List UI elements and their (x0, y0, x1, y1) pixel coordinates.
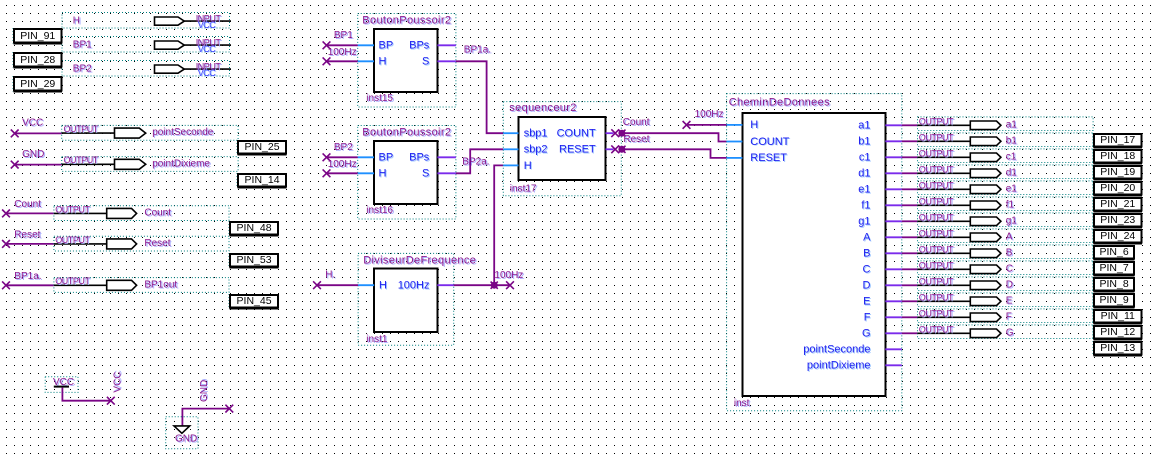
pin stub H of inst (727, 124, 743, 126)
svg-text:VCC: VCC (113, 371, 124, 392)
svg-text:OUTPUT: OUTPUT (919, 213, 954, 223)
svg-text:sequenceur2: sequenceur2 (509, 102, 576, 114)
svg-text:H: H (750, 119, 758, 131)
junction on net Reset (618, 146, 625, 153)
wire net f1 from inst to output port (902, 204, 918, 206)
junction on net Count (618, 130, 625, 137)
pin stub g1 of inst (885, 220, 902, 222)
svg-text:a1: a1 (858, 120, 870, 132)
wire net Reset from inst17.RESET to CheminDeDonnees.RESET (619, 149, 727, 158)
svg-text:OUTPUT: OUTPUT (919, 197, 954, 207)
svg-text:GND: GND (199, 380, 210, 402)
svg-text:OUTPUT: OUTPUT (919, 117, 954, 127)
wire inst16.S to sequenceur2.sbp2 (456, 149, 503, 173)
pin stub F of inst (885, 316, 902, 318)
svg-text:BP1: BP1 (334, 30, 353, 41)
output port component G (918, 325, 1094, 339)
output port component B (918, 245, 1094, 259)
wire endpoint X on net H at inst1.H (313, 281, 321, 289)
svg-text:RESET: RESET (559, 144, 596, 156)
svg-text:C: C (1006, 264, 1013, 275)
svg-text:B: B (1006, 248, 1013, 259)
svg-text:BP1a.: BP1a. (464, 45, 491, 56)
svg-text:PIN_6: PIN_6 (1100, 246, 1129, 258)
pin stub BPs of inst15 (437, 44, 456, 46)
svg-text:B: B (863, 248, 870, 260)
svg-text:BoutonPoussoir2: BoutonPoussoir2 (362, 126, 451, 138)
wire from GND to output pointDixieme (15, 164, 62, 166)
pin stub D of inst (885, 284, 902, 286)
svg-text:Count: Count (623, 117, 650, 128)
pin stub H of inst16 (358, 172, 374, 174)
pin number PIN_7 (1093, 261, 1135, 276)
wire endpoint X on net Count (2, 210, 10, 218)
svg-text:VCC: VCC (198, 68, 217, 78)
wire endpoint X on net VCC (11, 130, 19, 138)
output port component a1 (918, 117, 1094, 131)
svg-text:BP: BP (379, 152, 394, 164)
wire net 100Hz to CheminDeDonnees.H (687, 124, 727, 126)
svg-text:BP1out: BP1out (144, 279, 177, 290)
svg-text:PIN_23: PIN_23 (1100, 214, 1135, 226)
pin number PIN_9 (1093, 293, 1135, 308)
svg-text:PIN_48: PIN_48 (237, 222, 272, 234)
svg-text:a1: a1 (1006, 120, 1018, 131)
output port component pointSeconde (62, 124, 238, 140)
wire endpoint X on net BP1a. (2, 281, 10, 289)
pin stub H of inst17 (503, 164, 518, 166)
wire net F from inst to output port (902, 316, 918, 318)
svg-text:c1: c1 (1006, 152, 1017, 163)
svg-text:GND: GND (22, 149, 44, 160)
pin stub sbp1 of inst17 (503, 132, 518, 134)
svg-text:OUTPUT: OUTPUT (919, 261, 954, 271)
svg-text:100Hz: 100Hz (494, 270, 523, 281)
svg-text:100Hz: 100Hz (695, 109, 724, 120)
pin number PIN_18 (1093, 149, 1142, 164)
output port component f1 (918, 197, 1094, 211)
svg-text:G: G (862, 328, 871, 340)
wire from VCC symbol (62, 388, 110, 401)
svg-text:H: H (379, 280, 387, 292)
svg-text:H.: H. (325, 269, 335, 280)
svg-text:PIN_24: PIN_24 (1100, 230, 1135, 242)
junction on net 100Hz (491, 282, 498, 289)
svg-text:D: D (1006, 280, 1013, 291)
svg-text:VCC: VCC (22, 118, 43, 129)
pin stub sbp2 of inst17 (503, 148, 518, 150)
svg-text:BoutonPoussoir2: BoutonPoussoir2 (362, 14, 451, 26)
wire net g1 from inst to output port (902, 220, 918, 222)
pin stub BP of inst16 (358, 156, 374, 158)
output port component pointDixieme (62, 155, 238, 171)
svg-text:OUTPUT: OUTPUT (55, 235, 90, 245)
svg-text:b1: b1 (1006, 136, 1018, 147)
output port component g1 (918, 213, 1094, 227)
svg-text:OUTPUT: OUTPUT (919, 133, 954, 143)
svg-text:PIN_13: PIN_13 (1100, 342, 1135, 354)
svg-text:PIN_7: PIN_7 (1100, 262, 1129, 274)
svg-text:PIN_25: PIN_25 (245, 141, 280, 153)
svg-text:d1: d1 (1006, 168, 1018, 179)
block inst16 BoutonPoussoir2 (358, 126, 456, 220)
wire net a1 from inst to output port (902, 124, 918, 126)
wire from BP1a. to output BP1out (6, 284, 54, 286)
wire net b1 from inst to output port (902, 140, 918, 142)
pin number PIN_13 (1093, 341, 1142, 356)
wire endpoint X on net 100Hz at inst15.H (323, 57, 331, 65)
pin number PIN_11 (1093, 309, 1142, 324)
pin stub b1 of inst (885, 140, 902, 142)
wire net d1 from inst to output port (902, 172, 918, 174)
output port component d1 (918, 165, 1094, 179)
wire inst15.S to sequenceur2.sbp1 (456, 61, 503, 133)
block inst15 BoutonPoussoir2 (358, 14, 456, 108)
pin stub S of inst15 (437, 60, 456, 62)
svg-text:Count: Count (144, 208, 171, 219)
svg-text:OUTPUT: OUTPUT (64, 124, 99, 134)
svg-text:PIN_12: PIN_12 (1100, 326, 1135, 338)
wire from Reset to output Reset (6, 243, 54, 245)
svg-text:OUTPUT: OUTPUT (919, 293, 954, 303)
pin number PIN_24 (1093, 229, 1142, 244)
svg-text:OUTPUT: OUTPUT (919, 277, 954, 287)
svg-text:COUNT: COUNT (750, 136, 789, 148)
wire endpoint X on net GND (225, 405, 233, 413)
svg-text:PIN_8: PIN_8 (1100, 278, 1129, 290)
pin number PIN_91 (13, 28, 62, 44)
svg-text:100Hz: 100Hz (328, 47, 357, 58)
svg-text:f1: f1 (861, 200, 870, 212)
svg-text:100Hz: 100Hz (398, 280, 430, 292)
output port component c1 (918, 149, 1094, 163)
svg-text:BP: BP (379, 40, 394, 52)
svg-text:S: S (422, 168, 429, 180)
svg-text:b1: b1 (858, 136, 870, 148)
pin stub C of inst (885, 268, 902, 270)
wire net c1 from inst to output port (902, 156, 918, 158)
svg-text:inst15: inst15 (366, 93, 393, 104)
svg-text:BP2: BP2 (73, 63, 92, 74)
output port component D (918, 277, 1094, 291)
svg-text:OUTPUT: OUTPUT (55, 276, 90, 286)
svg-text:OUTPUT: OUTPUT (919, 181, 954, 191)
pin stub S of inst16 (437, 172, 456, 174)
svg-text:BP1: BP1 (73, 39, 92, 50)
wire endpoint X on net Count (611, 129, 619, 137)
pin number PIN_45 (229, 294, 279, 309)
svg-text:Reset: Reset (14, 230, 40, 241)
block inst1 DiviseurDeFrequence (358, 253, 476, 345)
svg-text:COUNT: COUNT (557, 128, 596, 140)
svg-text:BP2a.: BP2a. (462, 157, 489, 168)
svg-text:BPs: BPs (409, 40, 430, 52)
pin stub a1 of inst (885, 124, 902, 126)
svg-text:OUTPUT: OUTPUT (919, 229, 954, 239)
svg-text:OUTPUT: OUTPUT (55, 204, 90, 214)
wire endpoint X on net VCC (107, 397, 115, 405)
pin number PIN_8 (1093, 277, 1135, 292)
output port component E (918, 293, 1094, 307)
output port component Reset (54, 235, 229, 251)
pin number PIN_20 (1093, 181, 1142, 196)
pin stub G of inst (885, 332, 902, 334)
pin number PIN_6 (1093, 245, 1135, 260)
svg-text:C: C (863, 264, 871, 276)
wire net 100Hz vertical branch to sequenceur2.H (494, 165, 503, 285)
svg-text:PIN_28: PIN_28 (20, 54, 55, 66)
wire net G from inst to output port (902, 332, 918, 334)
wire net H to inst1.H (317, 284, 358, 286)
pin stub e1 of inst (885, 188, 902, 190)
svg-text:PIN_14: PIN_14 (245, 174, 280, 186)
pin number PIN_28 (13, 52, 62, 68)
svg-text:OUTPUT: OUTPUT (919, 165, 954, 175)
output port component BP1out (54, 276, 229, 292)
svg-text:100Hz: 100Hz (328, 159, 357, 170)
output port component b1 (918, 133, 1094, 147)
pin number PIN_21 (1093, 197, 1142, 212)
output port component F (918, 309, 1094, 323)
wire net C from inst to output port (902, 268, 918, 270)
svg-text:pointDixieme: pointDixieme (807, 360, 871, 372)
svg-text:c1: c1 (859, 152, 871, 164)
ground symbol GND (166, 417, 198, 449)
svg-text:RESET: RESET (750, 152, 787, 164)
svg-text:PIN_18: PIN_18 (1100, 150, 1135, 162)
pin number PIN_19 (1093, 165, 1142, 180)
svg-text:pointSeconde: pointSeconde (803, 344, 870, 356)
pin stub H of inst15 (358, 60, 374, 62)
svg-text:BPs: BPs (409, 152, 430, 164)
svg-text:PIN_29: PIN_29 (20, 78, 55, 90)
svg-text:OUTPUT: OUTPUT (919, 245, 954, 255)
svg-text:pointSeconde: pointSeconde (152, 127, 214, 138)
svg-text:inst1: inst1 (366, 334, 388, 345)
pin stub COUNT of inst17 (606, 132, 614, 134)
pin number PIN_12 (1093, 325, 1142, 340)
svg-text:DiviseurDeFrequence: DiviseurDeFrequence (363, 254, 476, 266)
svg-text:H: H (73, 15, 80, 26)
block inst17 sequenceur2 (503, 102, 621, 196)
wire endpoint X on net 100Hz at inst16.H (323, 169, 331, 177)
svg-text:VCC: VCC (198, 20, 217, 30)
svg-text:F: F (1006, 312, 1012, 323)
svg-text:inst: inst (734, 398, 750, 409)
wire endpoint X on net BP2 at inst16.BP (323, 153, 331, 161)
svg-text:g1: g1 (1006, 216, 1018, 227)
wire net D from inst to output port (902, 284, 918, 286)
wire endpoint X on net Reset (611, 145, 619, 153)
pin stub B of inst (885, 252, 902, 254)
pin stub COUNT of inst (727, 141, 743, 143)
wire endpoint X on net 100Hz at CheminDeDonnees.H (683, 121, 691, 129)
wire endpoint X on net Reset (2, 240, 10, 248)
svg-text:A: A (1006, 232, 1013, 243)
svg-text:pointDixieme: pointDixieme (152, 158, 210, 169)
pin stub pointDixieme of inst (885, 364, 902, 366)
output port component Count (54, 204, 229, 220)
svg-text:PIN_53: PIN_53 (237, 254, 272, 266)
svg-text:CheminDeDonnees: CheminDeDonnees (729, 97, 830, 109)
power symbol VCC (45, 377, 78, 393)
wire net e1 from inst to output port (902, 188, 918, 190)
svg-text:e1: e1 (1006, 184, 1018, 195)
svg-text:inst17: inst17 (510, 183, 537, 194)
svg-text:E: E (863, 296, 870, 308)
pin stub d1 of inst (885, 172, 902, 174)
input port component for net BP2 (62, 61, 231, 78)
pin stub BPs of inst16 (437, 156, 456, 158)
pin stub c1 of inst (885, 156, 902, 158)
svg-text:PIN_45: PIN_45 (237, 295, 272, 307)
svg-text:PIN_21: PIN_21 (1100, 198, 1135, 210)
wire net B from inst to output port (902, 252, 918, 254)
wire endpoint X on net GND (11, 161, 19, 169)
svg-text:sbp1: sbp1 (524, 128, 548, 140)
svg-text:BP2: BP2 (334, 142, 353, 153)
svg-text:PIN_9: PIN_9 (1100, 294, 1129, 306)
svg-text:F: F (864, 312, 871, 324)
pin stub pointSeconde of inst (885, 348, 902, 350)
svg-text:PIN_91: PIN_91 (20, 30, 55, 42)
pin number PIN_25 (237, 140, 287, 155)
pin number PIN_14 (237, 173, 287, 188)
wire net A from inst to output port (902, 236, 918, 238)
block inst CheminDeDonnees (727, 94, 902, 411)
wire net BP2 to inst16.BP (327, 156, 358, 158)
svg-text:PIN_20: PIN_20 (1100, 182, 1135, 194)
svg-text:Count: Count (14, 199, 41, 210)
svg-text:S: S (422, 56, 429, 68)
svg-text:OUTPUT: OUTPUT (919, 309, 954, 319)
svg-text:H: H (379, 168, 387, 180)
svg-text:inst16: inst16 (366, 205, 393, 216)
pin stub H of inst1 (358, 284, 374, 286)
pin stub RESET of inst17 (606, 148, 614, 150)
pin stub RESET of inst (727, 157, 743, 159)
svg-text:A: A (863, 232, 871, 244)
pin number PIN_17 (1093, 133, 1142, 148)
input port component for net BP1 (62, 37, 231, 54)
svg-text:PIN_19: PIN_19 (1100, 166, 1135, 178)
svg-text:G: G (1006, 328, 1014, 339)
wire from GND symbol (182, 409, 228, 426)
wire net 100Hz to inst16.H (327, 172, 358, 174)
wire from VCC to output pointSeconde (15, 132, 62, 134)
svg-text:GND: GND (175, 434, 197, 445)
pin stub A of inst (885, 236, 902, 238)
wire net 100Hz to inst15.H (327, 60, 358, 62)
wire net 100Hz from inst1 output (454, 284, 510, 286)
svg-text:BP1a.: BP1a. (14, 271, 41, 282)
svg-text:f1: f1 (1006, 200, 1015, 211)
svg-text:H: H (524, 160, 532, 172)
pin number PIN_29 (13, 76, 62, 92)
svg-text:VCC: VCC (198, 44, 217, 54)
wire endpoint X on net 100Hz (506, 281, 514, 289)
output port component A (918, 229, 1094, 243)
input port component for net H (62, 13, 231, 30)
svg-text:PIN_11: PIN_11 (1101, 310, 1135, 322)
pin stub E of inst (885, 300, 902, 302)
output port component C (918, 261, 1094, 275)
wire net BP1 to inst15.BP (327, 44, 358, 46)
svg-text:H: H (379, 56, 387, 68)
pin stub BP of inst15 (358, 44, 374, 46)
svg-text:Reset: Reset (144, 238, 170, 249)
svg-text:Reset: Reset (623, 134, 649, 145)
svg-text:d1: d1 (858, 168, 870, 180)
svg-text:D: D (863, 280, 871, 292)
pin stub f1 of inst (885, 204, 902, 206)
output port component e1 (918, 181, 1094, 195)
svg-text:E: E (1006, 296, 1013, 307)
pin number PIN_53 (229, 253, 279, 268)
wire from Count to output Count (6, 212, 54, 214)
svg-text:sbp2: sbp2 (524, 144, 548, 156)
wire endpoint X on net BP1 at inst15.BP (323, 41, 331, 49)
pin number PIN_23 (1093, 213, 1142, 228)
svg-text:OUTPUT: OUTPUT (64, 155, 99, 165)
wire net E from inst to output port (902, 300, 918, 302)
svg-text:g1: g1 (858, 216, 870, 228)
svg-text:OUTPUT: OUTPUT (919, 325, 954, 335)
svg-text:PIN_17: PIN_17 (1100, 134, 1135, 146)
svg-text:e1: e1 (858, 184, 870, 196)
svg-text:OUTPUT: OUTPUT (919, 149, 954, 159)
pin number PIN_48 (229, 221, 279, 236)
wire net Count from inst17.COUNT to CheminDeDonnees.COUNT (619, 133, 727, 141)
pin stub 100Hz of inst1 (437, 284, 453, 286)
